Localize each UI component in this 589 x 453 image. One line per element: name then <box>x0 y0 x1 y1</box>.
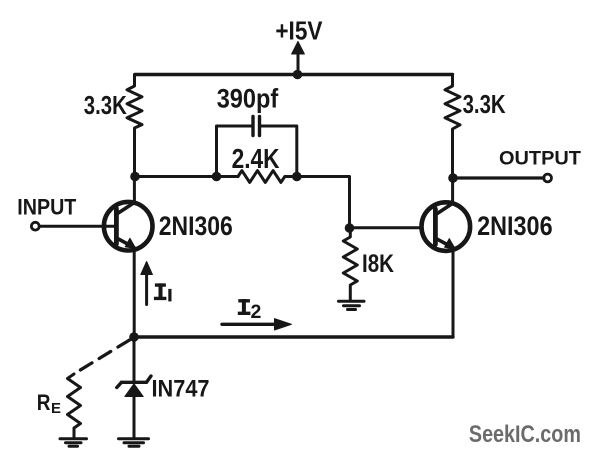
node junction emitter/zener <box>129 332 139 342</box>
wire Q2 emitter down <box>452 247 455 337</box>
resistor 3.3K right <box>445 75 460 179</box>
current arrow I2 <box>222 319 292 330</box>
svg-text:E: E <box>51 401 61 417</box>
svg-text:+I5V: +I5V <box>275 15 323 45</box>
capacitor 390pf branch <box>217 117 297 177</box>
transistor Q2 2N1306 right <box>422 202 471 251</box>
wire cap branch right vertical <box>261 126 297 177</box>
wire top supply rail <box>135 73 453 76</box>
transistor Q1 2N1306 left <box>104 202 153 251</box>
wire dashed to RE <box>77 340 130 372</box>
svg-text:3.3K: 3.3K <box>463 89 506 119</box>
svg-text:2NI306: 2NI306 <box>159 211 233 241</box>
ground under zener <box>119 439 149 447</box>
resistor 2.4K <box>238 171 297 183</box>
node junction at +15V tap <box>293 70 303 80</box>
wire feedback to right base <box>297 177 350 229</box>
svg-text:2: 2 <box>251 301 262 323</box>
svg-text:SeekIC.com: SeekIC.com <box>469 421 581 448</box>
zener diode 1N747 <box>117 337 151 438</box>
svg-text:INPUT: INPUT <box>17 194 77 219</box>
power +15V arrow <box>292 42 305 75</box>
node junction 2.4K left <box>212 172 222 182</box>
ground under 18K <box>339 301 365 309</box>
capacitor 390pf plates <box>253 117 260 136</box>
node junction collector/output <box>448 173 458 183</box>
wire OUTPUT <box>453 176 544 179</box>
terminal INPUT <box>31 222 39 230</box>
label I1 <box>159 283 163 300</box>
wire Q2 collector <box>451 178 454 203</box>
label I2 <box>242 299 246 315</box>
node junction 2.4K right <box>292 172 302 182</box>
resistor 3.3K left <box>127 75 142 177</box>
wire Q1 emitter down <box>133 248 136 338</box>
wire bottom emitter rail <box>134 335 453 338</box>
node junction base/18K <box>345 223 355 233</box>
ground under RE <box>60 439 87 447</box>
wire base of Q2 <box>350 226 423 229</box>
svg-text:IN747: IN747 <box>152 375 210 402</box>
svg-text:390pf: 390pf <box>217 83 279 113</box>
svg-text:I8K: I8K <box>362 250 394 278</box>
current arrow I1 <box>141 262 153 305</box>
terminal OUTPUT <box>544 174 552 182</box>
svg-text:R: R <box>37 390 51 415</box>
svg-text:3.3K: 3.3K <box>84 90 127 120</box>
wire Q1 collector <box>133 177 136 203</box>
wire INPUT <box>40 225 115 228</box>
resistor RE <box>68 374 81 438</box>
svg-text:2.4K: 2.4K <box>232 143 280 174</box>
wire cap branch left vertical <box>217 126 252 177</box>
node junction left collector <box>130 172 140 182</box>
wire feedback net (left collector to 2.4K/390pf) <box>135 175 238 178</box>
resistor 18K <box>343 228 357 300</box>
wire zener bottom <box>133 397 136 439</box>
svg-text:2NI306: 2NI306 <box>477 211 552 241</box>
svg-text:OUTPUT: OUTPUT <box>499 148 581 169</box>
wire zener top <box>133 337 136 381</box>
